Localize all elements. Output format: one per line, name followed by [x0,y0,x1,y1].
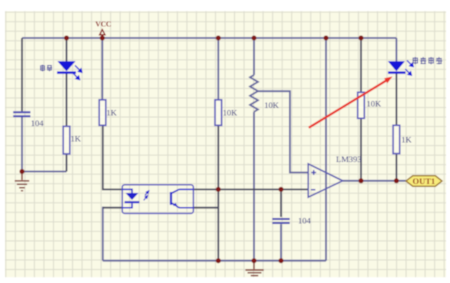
svg-text:10K: 10K [367,98,383,108]
svg-text:10K: 10K [264,100,280,110]
svg-text:1K: 1K [71,134,82,144]
svg-text:1K: 1K [401,134,412,144]
svg-text:OUT1: OUT1 [413,176,436,186]
svg-text:VCC: VCC [95,19,111,28]
svg-text:104: 104 [31,118,45,128]
svg-text:104: 104 [298,216,312,226]
svg-text:10K: 10K [223,108,239,118]
svg-text:LM393: LM393 [336,154,362,164]
svg-text:1K: 1K [106,108,117,118]
